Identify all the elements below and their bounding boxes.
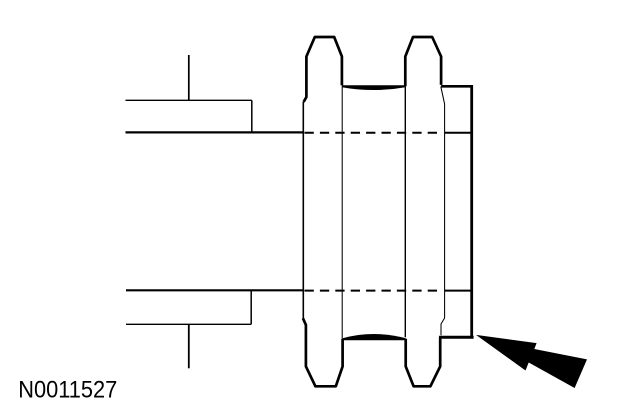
inner line hub step <box>441 87 445 336</box>
hidden shaft line lower solid end <box>445 290 471 292</box>
sleeve bottom-left rib outline <box>303 318 343 386</box>
inner line right rib base <box>404 86 406 337</box>
sleeve right outer edge <box>470 85 473 337</box>
sleeve left body edge <box>302 102 304 318</box>
sleeve top-left rib outline <box>304 37 342 102</box>
sleeve top-right shelf <box>441 85 473 88</box>
lower shaft tick <box>188 324 190 368</box>
upper shaft tick <box>188 55 190 100</box>
sleeve bottom-right rib outline <box>406 337 441 386</box>
sleeve top-right rib outline <box>405 37 441 86</box>
inner line left rib base <box>341 86 343 339</box>
lower shaft bottom edge <box>126 323 251 325</box>
upper shaft bottom edge <box>126 131 305 133</box>
lower shaft top edge <box>126 289 304 291</box>
hidden shaft line upper solid end <box>445 132 471 134</box>
upper shaft step <box>251 100 253 132</box>
callout arrow <box>476 335 587 388</box>
sleeve bottom valley band <box>343 334 406 340</box>
svg-text:N0011527: N0011527 <box>18 377 117 404</box>
hidden shaft line lower dashed <box>305 290 442 292</box>
lower shaft step <box>250 290 252 324</box>
upper shaft top edge <box>126 99 252 101</box>
sleeve top valley band <box>342 85 405 90</box>
sleeve bottom-right shelf <box>439 336 474 339</box>
hidden shaft line upper dashed <box>305 132 442 134</box>
